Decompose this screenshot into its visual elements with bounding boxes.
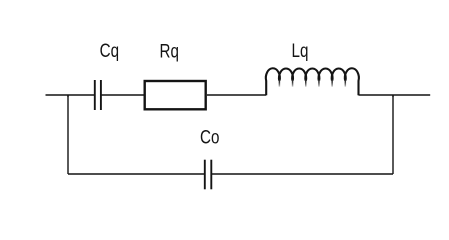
svg-text:Cq: Cq	[100, 40, 119, 62]
wire right vertical branch	[392, 95, 394, 174]
wire top-left lead	[46, 94, 95, 96]
svg-text:Lq: Lq	[292, 39, 309, 61]
node B (right T-junction)	[392, 95, 394, 97]
capacitor Co	[205, 160, 212, 190]
wire Co to bottom-right	[211, 173, 393, 175]
node A (left T-junction)	[67, 95, 69, 97]
wire Lq to right lead	[359, 94, 431, 96]
inductor Lq	[266, 68, 359, 95]
svg-text:Rq: Rq	[160, 40, 179, 62]
wire left vertical branch	[67, 95, 69, 174]
wire Cq to Rq	[101, 94, 144, 96]
resistor Rq	[145, 81, 206, 109]
capacitor Cq	[95, 80, 101, 110]
wire bottom-left to Co	[68, 173, 205, 175]
wire Rq to Lq	[207, 94, 266, 96]
svg-text:Co: Co	[200, 126, 219, 148]
